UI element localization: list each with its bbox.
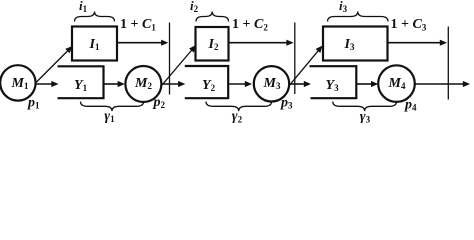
- svg-text:1 + C2: 1 + C2: [232, 17, 268, 32]
- svg-text:γ2: γ2: [232, 109, 243, 123]
- svg-text:I3: I3: [344, 37, 355, 52]
- svg-text:1 + C1: 1 + C1: [120, 17, 156, 32]
- arrowhead diagonal 1: [65, 46, 72, 53]
- node bus line 3: [447, 27, 449, 100]
- wire diagonal M2 to I2: [161, 50, 192, 87]
- box Y2 (open left): [185, 66, 228, 98]
- arrowhead output: [463, 81, 470, 87]
- underbrace y1: [81, 102, 144, 112]
- svg-text:I2: I2: [208, 37, 219, 52]
- svg-text:p4: p4: [404, 98, 417, 113]
- circle M1: [0, 65, 35, 100]
- circle M2: [125, 66, 161, 102]
- svg-text:M4: M4: [388, 76, 406, 91]
- arrowhead I3 output: [440, 40, 447, 46]
- arrowhead M3 to Y3: [304, 81, 311, 87]
- svg-text:γ3: γ3: [360, 110, 371, 124]
- svg-text:Y3: Y3: [326, 78, 340, 93]
- wire Y2 to M3: [228, 83, 245, 85]
- svg-text:M2: M2: [134, 76, 152, 91]
- svg-text:M3: M3: [263, 76, 281, 91]
- box I2: [196, 27, 229, 61]
- overbrace i3: [328, 12, 389, 22]
- wire I1 output: [117, 42, 162, 44]
- arrowhead I1 output: [161, 40, 168, 46]
- wire Y3 to M4: [356, 83, 371, 85]
- wire diagonal M1 to I1: [36, 50, 69, 83]
- arrowhead diagonal 3: [316, 46, 323, 54]
- svg-text:p2: p2: [153, 95, 166, 110]
- svg-text:Y2: Y2: [202, 78, 216, 93]
- svg-text:p3: p3: [280, 96, 293, 111]
- svg-text:I1: I1: [89, 37, 100, 52]
- underbrace y3: [333, 102, 397, 112]
- svg-text:i2: i2: [190, 0, 199, 14]
- wire M1 to Y1: [35, 83, 52, 85]
- box Y1 (open left): [58, 66, 104, 98]
- arrowhead M1 to Y1: [51, 81, 58, 87]
- wire M2 to Y2: [161, 83, 179, 85]
- overbrace i1: [75, 12, 115, 22]
- arrowhead I2 output: [286, 40, 293, 46]
- circle M4: [378, 65, 415, 102]
- underbrace y2: [206, 102, 272, 112]
- circle M3: [254, 66, 289, 101]
- wire M3 to Y3: [289, 83, 304, 85]
- svg-text:p1: p1: [27, 96, 40, 111]
- wire I3 output: [388, 42, 441, 44]
- wire I2 output: [229, 42, 288, 44]
- arrowhead M2 to Y2: [178, 81, 185, 87]
- box I3: [323, 27, 388, 61]
- wire diagonal M3 to I3: [289, 50, 319, 86]
- wire Y1 to M2: [104, 83, 119, 85]
- box Y3 (open left): [310, 66, 357, 98]
- svg-text:γ1: γ1: [104, 109, 115, 123]
- svg-text:Y1: Y1: [74, 78, 88, 93]
- node bus line 2: [294, 23, 296, 95]
- arrowhead Y1 to M2: [118, 81, 125, 87]
- overbrace i2: [196, 12, 229, 22]
- box I1: [72, 27, 117, 61]
- arrowhead Y2 to M3: [245, 81, 252, 87]
- svg-text:i1: i1: [79, 0, 88, 14]
- wire M4 to output: [415, 83, 464, 85]
- arrowhead Y3 to M4: [371, 81, 378, 87]
- svg-text:M1: M1: [11, 76, 29, 91]
- node bus line 1: [169, 23, 171, 95]
- svg-text:i3: i3: [339, 0, 348, 14]
- arrowhead diagonal 2: [189, 45, 196, 53]
- svg-text:1 + C3: 1 + C3: [391, 17, 427, 32]
